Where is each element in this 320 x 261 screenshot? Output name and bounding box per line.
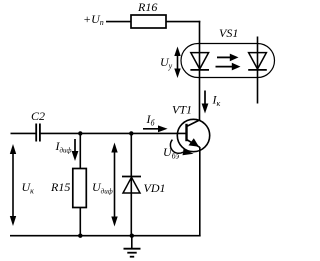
current arrow Ik	[202, 91, 221, 114]
wire main vertical: corner down through LED to VT1 collector	[199, 21, 201, 120]
svg-text:Iб: Iб	[146, 112, 156, 128]
node junction dot R15 top	[78, 131, 82, 135]
svg-text:VT1: VT1	[172, 103, 192, 117]
light arrow lower	[216, 63, 241, 71]
svg-text:Iк: Iк	[212, 93, 221, 109]
wire input top-left to C2	[11, 132, 37, 134]
wire R15 branch upper	[79, 133, 81, 168]
current arrow Ib	[143, 112, 168, 132]
node junction dot VD1 top	[129, 131, 133, 135]
LED of VS1 (left diode)	[190, 53, 209, 70]
capacitor C2	[31, 109, 45, 142]
wire R15 branch lower	[79, 208, 81, 237]
transistor VT1	[172, 103, 210, 152]
wire from +Up to R16	[106, 21, 131, 23]
svg-text:Uдиф: Uдиф	[92, 180, 113, 196]
voltage arrow Uy (double-headed)	[160, 47, 181, 79]
voltage arrow Ube (curved)	[163, 140, 194, 161]
wire from R16 to top corner	[166, 21, 200, 23]
light arrow upper	[217, 54, 239, 62]
voltage arrow Uk (double-headed)	[10, 144, 34, 226]
svg-text:VS1: VS1	[219, 26, 238, 40]
svg-text:R16: R16	[137, 0, 157, 14]
svg-text:Uбэ: Uбэ	[163, 145, 180, 161]
voltage arrow Udif (double-headed)	[92, 143, 118, 227]
svg-text:R15: R15	[50, 180, 70, 194]
current arrow Idif	[55, 139, 79, 161]
svg-text:Uу: Uу	[160, 55, 173, 71]
resistor R16	[131, 0, 166, 28]
diode VD1	[122, 177, 166, 196]
wire VD1 branch	[130, 133, 132, 236]
svg-text:+Uп: +Uп	[83, 12, 104, 27]
wire C2 to VT1 base	[40, 132, 187, 134]
wire bottom rail	[10, 235, 201, 237]
svg-text:C2: C2	[31, 109, 45, 123]
wire emitter vertical down to bottom rail	[199, 147, 201, 237]
resistor R15	[50, 169, 86, 208]
ground	[124, 236, 141, 257]
node junction dot R15 bottom	[78, 234, 82, 238]
optocoupler VS1 envelope	[181, 44, 275, 78]
svg-text:Uк: Uк	[22, 180, 35, 196]
svg-text:VD1: VD1	[144, 181, 166, 195]
node junction dot ground	[130, 234, 134, 238]
svg-text:Iдиф: Iдиф	[55, 139, 72, 155]
photodiode of VS1 (right diode)	[248, 37, 267, 104]
